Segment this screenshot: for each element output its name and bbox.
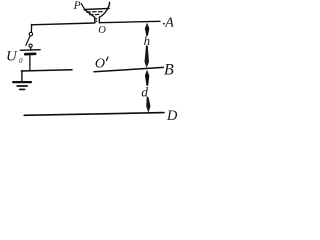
label U0 (6, 49, 23, 65)
svg-text:D: D (166, 108, 178, 124)
label P (73, 0, 81, 12)
ground symbol (13, 82, 31, 89)
wire battery down to bottom wire (29, 55, 31, 70)
funnel P left rim flare (81, 4, 84, 10)
label A (164, 15, 174, 30)
label h (144, 33, 151, 48)
plate B left segment (wire from ground corner to gap at O') (21, 70, 72, 71)
wire corner down to ground (21, 71, 23, 82)
switch S lever (open) (26, 36, 30, 45)
funnel P right wall and neck right (99, 2, 109, 23)
label B (164, 61, 174, 78)
plate B right segment (94, 67, 163, 71)
plate A right segment (funnel neck to right end) (100, 21, 161, 22)
battery U0 positive plate (long) (20, 49, 40, 52)
svg-text:P: P (73, 0, 81, 12)
label O (hole in plate A) (98, 25, 106, 36)
svg-text:A: A (164, 15, 174, 30)
plate A left segment (top wire from corner to funnel neck) (31, 23, 94, 25)
dimension arrow d upper head (145, 70, 149, 85)
svg-text:O: O (98, 25, 106, 36)
battery U0 negative plate (short thick) (25, 52, 35, 55)
funnel liquid dashes row 2 (90, 13, 99, 15)
funnel P left wall and neck left (84, 10, 95, 23)
dimension arrow d upper stem (146, 76, 148, 85)
node dot at A (163, 23, 165, 25)
funnel liquid dashes row 1 (87, 11, 103, 13)
svg-text:O: O (95, 56, 105, 71)
wire switch to battery (30, 47, 32, 49)
wire top-left vertical from corner to switch (30, 24, 32, 32)
dimension arrow d lower head (146, 98, 150, 113)
dimension arrow h lower head (145, 46, 150, 68)
svg-text:0: 0 (19, 57, 23, 65)
dimension arrow d lower stem (147, 98, 149, 106)
dimension arrow h upper head (145, 23, 150, 35)
label D (166, 108, 178, 124)
label O' (hole in plate B) (95, 56, 105, 71)
prime mark of O' (107, 57, 109, 60)
funnel P rim line (84, 8, 109, 9)
dimension arrow h upper stem (146, 29, 148, 35)
screen line D (24, 113, 164, 116)
switch S bottom contact circle (29, 44, 32, 47)
svg-text:B: B (164, 61, 174, 78)
switch S top contact circle (29, 32, 32, 35)
label d (141, 85, 148, 100)
dimension arrow h lower stem (146, 46, 148, 61)
droplet dots in funnel neck (95, 18, 97, 22)
svg-text:U: U (6, 49, 18, 65)
